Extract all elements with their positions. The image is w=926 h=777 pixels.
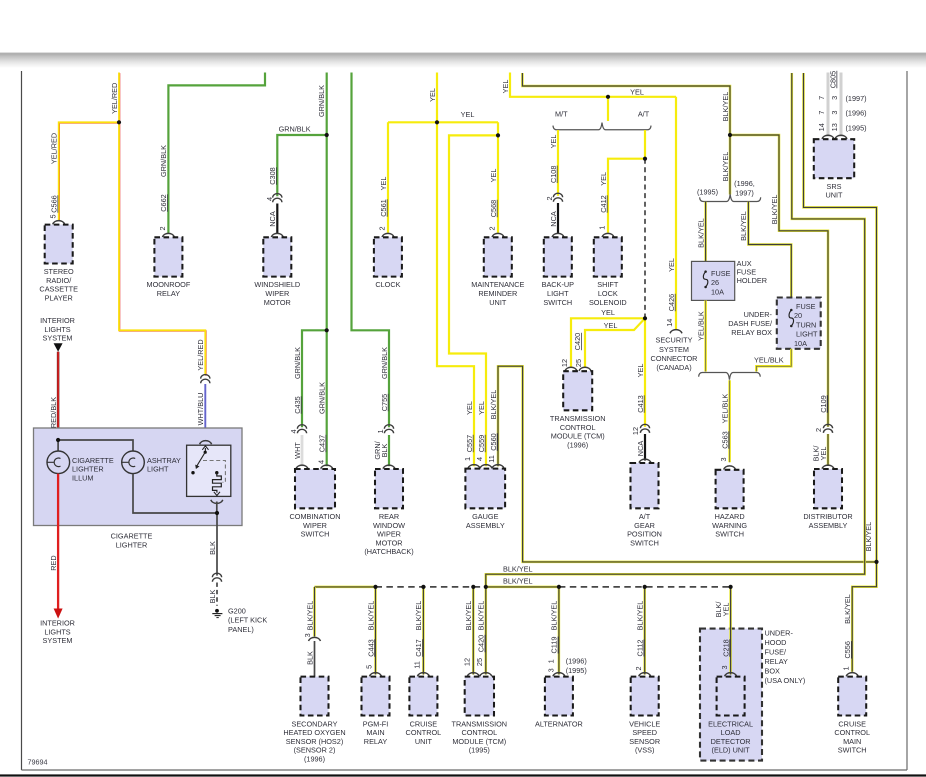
svg-text:YEL: YEL [604,321,618,330]
svg-text:C109: C109 [819,395,828,412]
svg-text:(1995): (1995) [697,188,718,197]
svg-text:RED/BLK: RED/BLK [49,397,58,428]
svg-text:GRN/BLK: GRN/BLK [380,347,389,379]
svg-text:C119: C119 [550,637,559,654]
svg-text:BLK/YEL: BLK/YEL [503,577,533,586]
junction dot rail [643,585,647,589]
component box MAINTENANCE REMINDER UNIT [484,237,512,276]
component box GAUGE ASSEMBLY [465,469,505,509]
connector arc SRS right [835,135,847,139]
svg-text:CLOCK: CLOCK [375,280,400,289]
svg-text:SECONDARY: SECONDARY [291,719,337,728]
wire BLK/YEL A to cruise control main switch [804,73,877,672]
svg-text:GRN/BLK: GRN/BLK [293,347,302,379]
svg-text:YEL: YEL [601,308,615,317]
svg-text:SYSTEM: SYSTEM [42,636,72,645]
svg-text:1997): 1997) [735,188,754,197]
connector arc TCM96 pin12 [565,367,577,371]
svg-text:BLK/YEL: BLK/YEL [489,390,498,420]
wire YEL/RED branch to stereo [59,123,119,221]
component box UNDER-DASH FUSE/RELAY BOX (FUSE 20) [777,298,821,349]
svg-text:13: 13 [830,123,839,131]
svg-text:C412: C412 [599,195,608,212]
svg-text:1: 1 [598,226,607,230]
connector arcs C308 [273,194,282,198]
svg-text:BLK/YEL: BLK/YEL [464,601,473,631]
svg-text:3: 3 [720,665,729,669]
svg-text:11: 11 [413,661,422,669]
svg-text:CIGARETTE: CIGARETTE [72,456,114,465]
connector arc at alternator [553,673,565,677]
svg-text:STEREO: STEREO [44,267,74,276]
junction dot YEL [496,133,500,137]
junction dot lighter [56,438,60,442]
svg-text:C308: C308 [268,167,277,184]
svg-text:7: 7 [817,96,826,100]
junction dot YEL/RED [117,120,121,124]
diagram right border [906,71,908,770]
svg-text:(HATCHBACK): (HATCHBACK) [364,547,413,556]
svg-text:UNIT: UNIT [415,737,433,746]
connector arc at cruise control unit [417,673,429,677]
svg-text:14: 14 [817,123,826,131]
wire NCA to A/T gear position switch [644,434,646,461]
svg-text:SWITCH: SWITCH [301,530,330,539]
wire BLK/YEL tap to TCM 1995 pin 12 [472,587,475,675]
svg-text:C755: C755 [380,394,389,411]
component box REAR WINDOW WIPER MOTOR (HATCHBACK) [375,469,403,508]
junction dot rail [484,585,488,589]
svg-text:YEL/BLK: YEL/BLK [720,394,729,424]
svg-text:HAZARD: HAZARD [715,512,745,521]
svg-text:RELAY: RELAY [765,657,789,666]
svg-text:1: 1 [376,429,385,433]
svg-text:CONTROL: CONTROL [834,728,870,737]
svg-text:BOX: BOX [765,667,781,676]
wire BLK/YEL B to bottom rail [486,73,865,587]
svg-text:MOTOR: MOTOR [375,538,402,547]
wire BLK/YEL below C109 [827,434,830,466]
svg-text:UNIT: UNIT [489,298,507,307]
svg-text:79694: 79694 [28,758,48,767]
svg-text:2: 2 [488,226,497,230]
svg-text:BLK: BLK [208,541,217,555]
svg-text:4: 4 [289,429,298,433]
wire ashtray light to switch return [133,474,217,513]
wire WHT to combination wiper switch [301,435,303,466]
wire YEL to TCM 1996 pin 25 [585,318,645,367]
component box COMBINATION WIPER SWITCH [295,469,335,508]
wire BLK/YEL tap to TCM 1995 pin 25 [485,587,488,675]
svg-text:C561: C561 [379,199,388,216]
svg-text:LOCK: LOCK [598,289,618,298]
svg-text:(1996): (1996) [566,656,587,665]
svg-text:C413: C413 [636,395,645,412]
svg-text:LIGHTS: LIGHTS [44,627,70,636]
svg-text:CONTROL: CONTROL [560,423,596,432]
svg-text:BLK/YEL: BLK/YEL [636,601,645,631]
top shading bar [0,52,926,68]
svg-text:BLK/YEL: BLK/YEL [739,211,748,241]
component box MOONROOF RELAY [154,237,182,276]
wire BLK/YEL rail solid segment 2 [486,586,559,589]
svg-text:(SENSOR 2): (SENSOR 2) [294,746,336,755]
wire YEL M/T leg to back-up light switch [557,130,559,196]
svg-text:TRANSMISSION: TRANSMISSION [550,414,606,423]
wire GRN/BLK below C755 [388,435,390,466]
svg-text:(VSS): (VSS) [635,746,654,755]
svg-text:ALTERNATOR: ALTERNATOR [535,719,583,728]
svg-text:GEAR: GEAR [634,521,655,530]
svg-text:(LEFT KICK: (LEFT KICK [228,616,267,625]
component box ELECTRICAL LOAD DETECTOR (ELD) UNIT [717,677,745,716]
svg-text:C437: C437 [318,435,327,452]
svg-text:(1996,: (1996, [734,179,755,188]
svg-text:WIPER: WIPER [377,530,401,539]
connector arc at vehicle speed sensor [639,673,651,677]
svg-text:25: 25 [475,658,484,666]
svg-text:YEL/BLK: YEL/BLK [754,356,784,365]
svg-text:YEL: YEL [465,401,474,415]
svg-text:YEL/RED: YEL/RED [110,83,119,114]
svg-text:BLK/YEL: BLK/YEL [864,522,873,552]
svg-text:BLK: BLK [305,651,314,665]
component box TRANSMISSION CONTROL MODULE (TCM) (1995) [465,677,494,716]
connector arc at A/T gear position switch [639,459,651,463]
connector arc at ELD unit [725,673,737,677]
svg-text:12: 12 [631,427,640,435]
junction dot rail [471,585,475,589]
svg-text:LIGHTS: LIGHTS [44,325,70,334]
component box STEREO RADIO/CASSETTE PLAYER [45,225,73,264]
junction dot rail [729,585,733,589]
connector arc at moonroof relay [162,233,174,237]
lamp CIGARETTE LIGHTER ILLUM [47,451,70,474]
svg-text:CONTROL: CONTROL [406,728,442,737]
wire element output [216,502,218,514]
connector cup lighter element bottom [211,500,223,504]
wire BLK/YEL tap to cruise control unit [422,587,425,675]
svg-text:UNDER-: UNDER- [744,310,773,319]
svg-text:ASSEMBLY: ASSEMBLY [809,521,848,530]
svg-text:M/T: M/T [555,110,568,119]
svg-text:MOTOR: MOTOR [264,298,291,307]
arrow to interior lights system bottom [54,609,63,619]
svg-text:BLK/YEL: BLK/YEL [414,601,423,631]
wire YEL branch to gauge C559 [449,135,498,466]
svg-text:BLK: BLK [380,443,389,457]
svg-text:20: 20 [794,311,802,320]
component box PGM-FI MAIN RELAY [362,677,390,716]
wire RED from illum lamp to interior lights [57,474,59,609]
connector arc at cruise control main switch [846,673,858,677]
svg-text:COMBINATION: COMBINATION [290,512,341,521]
fuse 20 symbol [790,309,793,312]
svg-text:5: 5 [48,214,57,218]
svg-text:WHT: WHT [293,442,302,459]
lamp ASHTRAY LIGHT [122,451,145,474]
connector arc at distributor assembly [822,465,834,469]
svg-text:A/T: A/T [639,512,651,521]
svg-text:ILLUM: ILLUM [72,474,94,483]
junction dot BLK/YEL [728,133,732,137]
diagram left border [21,71,23,770]
svg-text:BLK: BLK [208,589,217,603]
svg-text:BLK/YEL: BLK/YEL [550,601,559,631]
connector arcs C109 [823,424,832,428]
wire RED/BLK inside box to illum lamp [57,440,59,451]
svg-text:LIGHTER: LIGHTER [116,541,148,550]
svg-text:WINDSHIELD: WINDSHIELD [254,280,300,289]
svg-text:LIGHT: LIGHT [547,289,569,298]
component box AUX FUSE HOLDER [692,261,735,300]
svg-text:12: 12 [463,658,472,666]
svg-text:BLK/YEL: BLK/YEL [696,218,705,248]
arrow down to output [214,492,220,496]
svg-text:(1996): (1996) [846,109,867,118]
switch blade [197,452,206,466]
wire WHT/BLU to lighter switch [204,384,206,441]
svg-text:INTERIOR: INTERIOR [40,619,75,628]
connector arcs C435 [297,425,306,429]
svg-text:NCA: NCA [549,211,558,227]
junction dot GRN/BLK upper [325,133,329,137]
terminal arc security system connector [670,330,682,334]
svg-text:YEL: YEL [549,135,558,149]
svg-text:WARNING: WARNING [712,521,747,530]
junction dot YEL TCM [643,316,647,320]
wire YEL down to A/T gear position switch [644,318,646,427]
brace 1995 / 1996-1997 [700,194,761,201]
wire BLK/YEL 1996-1997 leg to under-dash fuse box [748,202,791,297]
svg-text:SECURITY: SECURITY [656,336,693,345]
svg-text:2: 2 [378,226,387,230]
svg-text:(1995): (1995) [566,666,587,675]
svg-text:FUSE: FUSE [796,302,816,311]
wire BLK dashed to ground [216,583,218,606]
svg-text:SYSTEM: SYSTEM [42,334,72,343]
wire YEL/BLK from fuse 26 [704,300,707,371]
svg-text:GRN/BLK: GRN/BLK [159,145,168,177]
svg-text:1: 1 [463,457,472,461]
connector arc at shift lock solenoid [602,233,614,237]
svg-text:MAIN: MAIN [366,728,384,737]
svg-text:CONTROL: CONTROL [461,728,497,737]
svg-text:C417: C417 [414,639,423,656]
switch box cigarette lighter element [187,445,231,496]
svg-text:BLK/YEL: BLK/YEL [721,92,730,122]
svg-text:C426: C426 [667,294,676,311]
junction dot rail1 end [874,560,878,564]
svg-text:26: 26 [711,278,719,287]
svg-text:UNDER-: UNDER- [765,629,794,638]
wire BLK/YEL rail dashed segment 1 [376,586,486,588]
wire NCA to back-up light switch [557,203,559,233]
connector arc rear window wiper motor [383,465,395,469]
svg-text:PGM-FI: PGM-FI [363,719,389,728]
wire YEL to security system connector [675,97,677,329]
svg-text:MAINTENANCE: MAINTENANCE [471,280,524,289]
svg-text:1: 1 [547,659,556,663]
svg-text:14: 14 [665,319,674,327]
svg-text:5: 5 [365,665,374,669]
svg-text:BLK/YEL: BLK/YEL [366,601,375,631]
connector arcs C755 [384,425,393,429]
svg-text:SHIFT: SHIFT [597,280,619,289]
connector arc combination wiper switch right [321,465,333,469]
svg-text:SYSTEM: SYSTEM [659,345,689,354]
svg-text:10A: 10A [794,339,807,348]
wire BLK/YEL rail solid left segment [315,586,376,589]
connector arc at maintenance reminder unit [492,233,504,237]
svg-text:C662: C662 [159,194,168,211]
connector arc TCM96 pin25 [579,367,591,371]
svg-text:GRN/BLK: GRN/BLK [279,125,311,134]
connector arc at stereo [53,221,65,225]
svg-text:(1996): (1996) [567,441,588,450]
svg-text:3: 3 [303,633,312,637]
wire BLK/YEL rail dashed segment 2 [559,586,731,588]
svg-text:SWITCH: SWITCH [543,298,572,307]
wire YEL/BLK to hazard warning switch [728,380,731,462]
svg-text:CRUISE: CRUISE [838,719,866,728]
connector arc gauge C559 [480,465,492,469]
component box ALTERNATOR [545,677,573,716]
component box VEHICLE SPEED SENSOR (VSS) [631,677,659,716]
junction dot rail [373,585,377,589]
wire GRN/BLK main vertical [326,73,328,467]
svg-text:10A: 10A [711,287,724,296]
wire YEL/RED down to cigarette lighter [120,123,206,376]
svg-text:MAIN: MAIN [843,737,861,746]
svg-text:CASSETTE: CASSETTE [39,285,78,294]
svg-text:2: 2 [158,226,167,230]
svg-text:GAUGE: GAUGE [472,512,498,521]
fuse 26 symbol [704,270,707,273]
svg-text:A/T: A/T [638,110,650,119]
junction dot YEL at clock feed [435,120,439,124]
svg-text:WINDOW: WINDOW [373,521,405,530]
wire BLK/YEL tap to HOS2 sensor [313,587,316,637]
svg-text:YEL: YEL [630,88,644,97]
svg-text:YEL: YEL [667,258,676,272]
svg-text:NCA: NCA [636,441,645,457]
page bottom rule [0,774,926,776]
connector arcs C108 [553,193,562,197]
svg-text:RELAY: RELAY [157,289,181,298]
svg-text:LOAD: LOAD [721,728,741,737]
svg-text:2: 2 [634,666,643,670]
heater element contact [215,471,218,474]
connector arc HOS2 pin 3 [309,637,321,641]
connector arc at back-up light switch [552,233,564,237]
svg-text:BLK/YEL: BLK/YEL [770,195,779,225]
svg-text:C420: C420 [477,635,486,652]
connector arc gauge C560 [492,465,504,469]
connector arcs BLK inline [212,573,221,577]
svg-text:MODULE (TCM): MODULE (TCM) [452,737,506,746]
wire BLK/YEL 1995 leg to aux fuse holder [704,202,707,261]
svg-text:C805: C805 [829,71,838,88]
svg-text:TRANSMISSION: TRANSMISSION [452,719,508,728]
svg-text:YEL: YEL [819,447,828,461]
dashed linkage [203,461,225,483]
wire YEL to shift lock solenoid [608,159,645,233]
wire YEL A/T leg [644,130,646,159]
component box SRS UNIT [814,139,854,178]
svg-text:GRN/BLK: GRN/BLK [317,85,326,117]
svg-text:ELECTRICAL: ELECTRICAL [708,719,753,728]
svg-text:12: 12 [560,359,569,367]
junction dot GRN/BLK lower [325,328,329,332]
connector arc at clock [382,233,394,237]
svg-text:CIGARETTE: CIGARETTE [111,532,153,541]
svg-text:PLAYER: PLAYER [45,293,73,302]
wire BLK/YEL from gauge assembly C560 [498,366,877,562]
junction dot YEL A/T [643,157,647,161]
wire YEL to TCM 1996 pin 12 [571,318,645,367]
svg-text:BLK/YEL: BLK/YEL [477,601,486,631]
connector arc lighter element top [200,441,212,445]
svg-text:RED: RED [49,555,58,570]
connector arc TCM95 pin 25 [480,673,492,677]
svg-text:CRUISE: CRUISE [410,719,438,728]
svg-text:MOONROOF: MOONROOF [147,280,191,289]
brace M/T A/T [553,123,651,130]
svg-text:1: 1 [841,666,850,670]
svg-text:2: 2 [545,196,554,200]
junction dot rail [557,585,561,589]
svg-text:DASH FUSE/: DASH FUSE/ [728,319,773,328]
svg-text:HEATED OXYGEN: HEATED OXYGEN [283,728,345,737]
component box BACK-UP LIGHT SWITCH [544,237,572,276]
svg-text:WIPER: WIPER [265,289,289,298]
svg-text:BLK/YEL: BLK/YEL [305,601,314,631]
svg-text:3: 3 [830,111,839,115]
wire YEL horizontal to clock [388,121,498,123]
wire SRS C805 right [840,73,843,137]
svg-text:LIGHT: LIGHT [147,465,169,474]
svg-text:(1995): (1995) [469,746,490,755]
svg-text:BLK/YEL: BLK/YEL [503,564,533,573]
svg-text:HOLDER: HOLDER [737,276,767,285]
svg-text:YEL/RED: YEL/RED [196,339,205,370]
component box CRUISE CONTROL UNIT [409,677,437,716]
wire GRN/BLK branch to combination wiper switch C435 [302,330,327,427]
svg-text:7: 7 [817,111,826,115]
svg-text:YEL/BLK: YEL/BLK [696,311,705,341]
svg-text:SENSOR (HOS2): SENSOR (HOS2) [286,737,344,746]
arrow to interior lights system [54,343,63,352]
wire BLK to HOS2 sensor [314,641,316,676]
svg-text:CONNECTOR: CONNECTOR [651,354,698,363]
svg-text:YEL: YEL [721,603,730,617]
wire YEL stub to M/T-A/T brace [607,97,609,121]
svg-text:3: 3 [547,668,556,672]
svg-text:3: 3 [830,96,839,100]
svg-text:BACK-UP: BACK-UP [542,280,575,289]
svg-text:YEL: YEL [489,169,498,183]
svg-text:LIGHTER: LIGHTER [72,465,104,474]
svg-text:TURN: TURN [796,320,816,329]
svg-text:RELAY BOX: RELAY BOX [731,328,772,337]
svg-text:HOOD: HOOD [765,638,787,647]
svg-text:YEL: YEL [461,110,475,119]
resistor heating element [213,473,222,493]
svg-text:(1995): (1995) [846,123,867,132]
component box SHIFT LOCK SOLENOID [594,237,622,276]
connector arc SRS left [822,135,834,139]
